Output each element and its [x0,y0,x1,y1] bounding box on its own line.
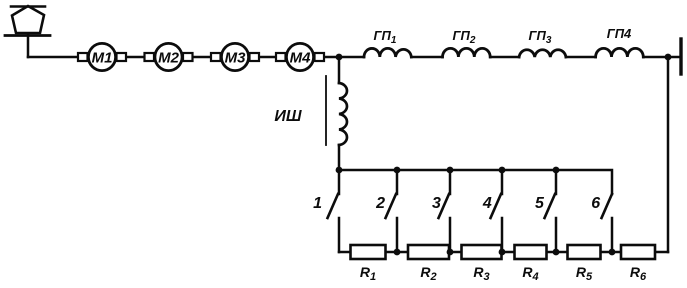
wire resistor chain [339,251,668,254]
svg-text:ГП2: ГП2 [453,28,476,46]
node junction top of shunt branch [336,54,343,61]
svg-text:М1: М1 [92,50,113,67]
svg-text:1: 1 [313,195,322,212]
svg-text:R1: R1 [360,264,376,283]
node chain dot 5 [553,249,560,256]
resistor R4 [515,245,547,283]
node chain dot 2 [394,249,401,256]
wire [643,56,680,59]
resistor R1 [351,245,386,283]
svg-text:6: 6 [591,195,600,212]
svg-text:ИШ: ИШ [274,108,302,125]
wire right vertical [667,57,670,252]
svg-text:ГП4: ГП4 [607,26,632,41]
inductor GP1 [364,28,411,57]
svg-text:R3: R3 [473,264,489,283]
wire [411,56,442,59]
resistor R2 [408,245,449,283]
wire main line left [28,56,364,59]
motor M3 [211,43,259,70]
switch 4 [482,170,502,252]
svg-text:3: 3 [432,195,441,212]
svg-text:R2: R2 [420,264,436,283]
switch 2 [375,170,397,252]
node chain dot 4 [499,249,506,256]
svg-text:5: 5 [535,195,545,212]
svg-text:R5: R5 [576,264,593,283]
motor M4 [276,43,324,70]
svg-text:М3: М3 [225,50,246,67]
wire [566,56,596,59]
node chain dot 6 [609,249,616,256]
switch 5 [535,170,556,252]
wire [490,56,519,59]
inductor GP2 [443,28,491,57]
terminal bar [679,39,682,74]
node right top junction [665,54,672,61]
node bus left junction [336,167,343,174]
node bus dot 5 [553,167,560,174]
svg-text:ГП1: ГП1 [374,28,397,46]
node bus dot 4 [499,167,506,174]
pantograph current collector [5,6,50,57]
svg-text:М4: М4 [290,50,311,67]
switch 1 [313,170,339,252]
inductor GP4 [596,26,644,57]
resistor R3 [462,245,502,283]
inductor GP3 [519,28,566,57]
resistor R5 [568,245,601,283]
switch 3 [432,170,450,252]
svg-text:4: 4 [482,195,492,212]
node bus dot 2 [394,167,401,174]
svg-text:ГП3: ГП3 [529,28,552,46]
switch 6 [591,194,612,252]
svg-text:2: 2 [375,195,385,212]
wire bus line [339,170,612,194]
inductor ИШ (shunt) [274,57,347,170]
svg-text:М2: М2 [158,50,179,67]
svg-text:R4: R4 [522,264,538,283]
node bus dot 3 [447,167,454,174]
node chain dot 3 [447,249,454,256]
svg-text:R6: R6 [630,264,647,283]
motor M1 [78,43,126,70]
resistor R6 [621,245,655,283]
motor M2 [145,43,193,70]
